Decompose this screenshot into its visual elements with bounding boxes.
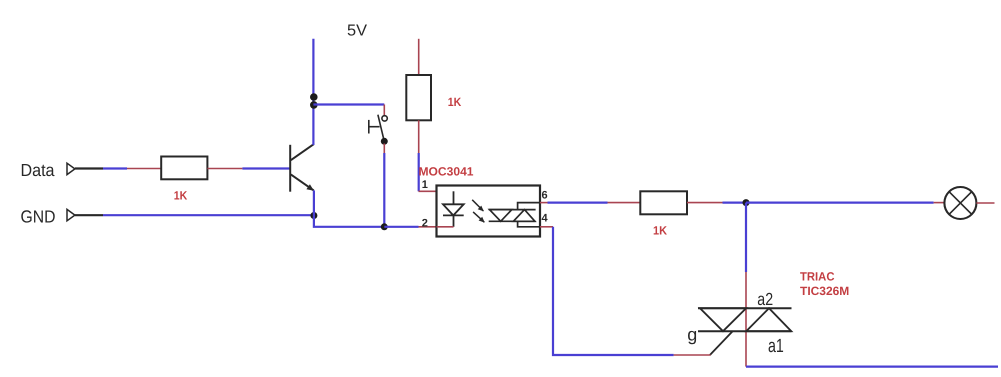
svg-text:1K: 1K	[653, 224, 667, 238]
wire emitter junction to pin2 row	[314, 190, 384, 226]
wire 5V rail to collector	[312, 39, 314, 145]
op-amp U1 optocoupler body	[437, 186, 541, 237]
wire Data port to R1	[75, 167, 162, 169]
wire triac a1 to right edge	[746, 366, 998, 368]
wire R3 to lamp junction	[687, 202, 746, 204]
junction pin2 row	[381, 223, 388, 230]
junction lamp node	[743, 199, 750, 206]
lamp L1	[944, 187, 976, 219]
svg-text:a1: a1	[768, 336, 784, 357]
wire junction to U1 pin 2	[384, 226, 437, 228]
wire junction to lamp	[746, 202, 945, 204]
svg-text:1K: 1K	[174, 189, 188, 203]
svg-text:4: 4	[542, 212, 549, 224]
light arrow 1 inside U1	[472, 200, 484, 212]
wire 5V rail to switch	[313, 105, 384, 116]
junction 5V rail upper	[310, 93, 318, 101]
wire U1 pin2 internal	[437, 226, 454, 228]
switch S1	[369, 115, 388, 140]
junction switch bottom terminal	[381, 138, 388, 145]
light arrow 2 inside U1	[473, 212, 485, 223]
wire U1 pin 6 to R3	[540, 202, 641, 204]
svg-text:6: 6	[542, 189, 548, 201]
phototriac inside U1	[489, 203, 540, 227]
svg-text:1K: 1K	[448, 95, 462, 109]
svg-text:Data: Data	[21, 160, 55, 180]
resistor R3 1K body	[640, 191, 687, 214]
svg-text:1: 1	[422, 179, 428, 191]
triac Q2 TIC326M	[698, 308, 792, 355]
svg-text:g: g	[687, 325, 697, 345]
wire lamp right stub	[976, 202, 994, 204]
wire switch to pin2 row	[383, 144, 385, 227]
port GND terminal	[67, 209, 75, 220]
wire GND port to emitter junction	[75, 214, 314, 216]
svg-text:2: 2	[422, 218, 428, 230]
wire 5V to R2	[418, 39, 420, 76]
resistor R1 1K body	[161, 157, 207, 180]
transistor Q1 (NPN)	[290, 144, 314, 192]
junction 5V rail lower	[310, 101, 318, 109]
svg-text:a2: a2	[757, 289, 773, 309]
wire U1 pin 4 to triac gate	[540, 227, 711, 355]
wire R1 to Q1 base	[207, 168, 290, 170]
svg-text:GND: GND	[21, 207, 56, 227]
svg-text:MOC3041: MOC3041	[419, 165, 474, 179]
junction emitter/GND	[310, 212, 317, 219]
transistor Q1 emitter arrowhead	[306, 184, 314, 191]
wire junction to triac a2	[745, 203, 747, 367]
LED inside U1	[443, 191, 464, 227]
wire R2 to U1 pin 1	[419, 120, 455, 191]
svg-text:TRIAC: TRIAC	[800, 270, 835, 284]
svg-text:5V: 5V	[347, 23, 367, 40]
svg-text:TIC326M: TIC326M	[800, 284, 849, 298]
resistor R2 1K body	[406, 75, 431, 120]
port Data terminal	[67, 163, 75, 174]
